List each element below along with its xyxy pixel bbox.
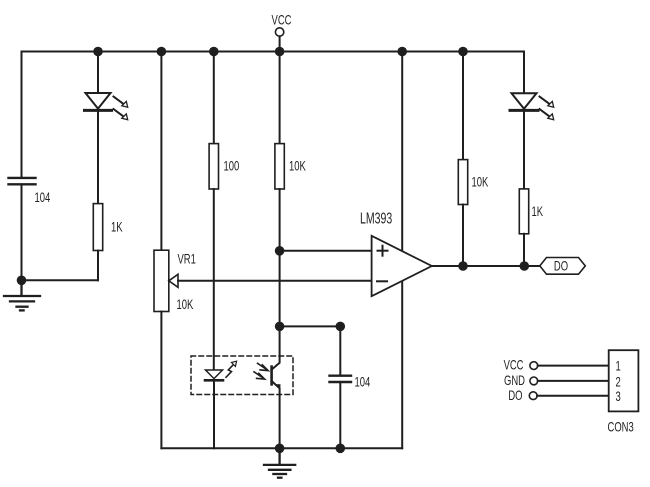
wire VR1 wiper to inverting input	[178, 280, 372, 282]
junction dot non-inverting node	[275, 246, 285, 256]
wire R100 to IR LED	[213, 189, 215, 370]
svg-text:DO: DO	[508, 388, 522, 403]
svg-text:10K: 10K	[177, 297, 194, 312]
wire VCC stem	[279, 36, 281, 51]
svg-text:VCC: VCC	[504, 358, 524, 373]
wire R100 top	[213, 52, 215, 144]
wire op-amp power from rail	[401, 52, 403, 449]
op-amp U1 LM393	[372, 236, 432, 296]
wire DO to CON3 pin3	[537, 395, 609, 397]
svg-text:LM393: LM393	[360, 209, 392, 227]
svg-text:DO: DO	[554, 259, 568, 274]
wire LED1 cathode to R1	[97, 110, 99, 203]
wire to non-inverting input	[280, 250, 372, 252]
junction dot ground rail x280	[275, 444, 285, 454]
port tag DO	[540, 258, 586, 275]
svg-text:CON3: CON3	[608, 420, 634, 435]
svg-text:VR1: VR1	[178, 252, 196, 267]
wire IR LED cathode to ground rail	[213, 380, 215, 448]
junction dot rail x402	[397, 47, 407, 57]
pin circle GND	[530, 377, 538, 385]
wire left column lower	[21, 185, 23, 280]
optocoupler dashed box	[191, 356, 293, 395]
junction dot rail x161	[157, 47, 167, 57]
svg-text:VCC: VCC	[272, 13, 292, 28]
node VCC terminal circle	[275, 28, 283, 36]
connector CON3 body	[609, 350, 639, 411]
wire VR1 top	[160, 52, 162, 251]
junction dot rail x463	[458, 47, 468, 57]
IR emitter LED	[205, 370, 223, 380]
wire left column upper	[21, 52, 23, 178]
svg-text:3: 3	[616, 389, 621, 404]
VR1 wiper arrow	[169, 274, 178, 287]
resistor 10K divider	[275, 144, 284, 189]
phototransistor Q1	[272, 326, 281, 448]
IR LED emission bolt arrow	[226, 361, 237, 377]
svg-text:104: 104	[35, 190, 51, 205]
wire pull-up 10K bottom	[462, 205, 464, 267]
resistor 1K right	[519, 189, 528, 234]
wire VCC top rail	[22, 51, 525, 53]
wire LED1 anode	[97, 52, 99, 94]
wire right column from rail	[523, 52, 525, 94]
wire VCC to CON3 pin1	[538, 365, 609, 367]
junction dot filter node	[275, 322, 285, 332]
capacitor 104 left	[9, 178, 36, 184]
svg-text:10K: 10K	[289, 159, 306, 174]
wire 1K right bottom	[523, 234, 525, 266]
wire LED2 cathode to 1K	[523, 110, 525, 188]
wire bottom ground rail	[161, 447, 402, 449]
capacitor 104 filter	[330, 326, 352, 448]
resistor 100	[209, 144, 218, 189]
junction dot output x463	[458, 261, 468, 271]
svg-text:2: 2	[616, 375, 621, 390]
pin circle VCC	[530, 362, 538, 370]
potentiometer VR1 body	[154, 250, 169, 311]
wire 10K bottom to node	[279, 189, 281, 251]
wire filter node to capacitor	[280, 325, 341, 327]
ground left	[4, 280, 40, 310]
resistor 10K pull-up	[458, 160, 467, 205]
junction dot rail x98	[93, 47, 103, 57]
junction dot ground rail x340	[336, 444, 346, 454]
wire GND to CON3 pin2	[538, 380, 609, 382]
wire R1 bottom	[97, 251, 99, 281]
wire 1K bottom to ground node	[22, 279, 99, 281]
wire VR1 bottom to ground rail	[160, 312, 162, 449]
junction dot rail x280	[275, 47, 285, 57]
svg-text:10K: 10K	[472, 175, 489, 190]
op-amp plus sign	[378, 246, 388, 256]
LED D2 emission arrows	[540, 97, 554, 120]
op-amp minus sign	[377, 280, 387, 282]
wire pull-up 10K top	[462, 52, 464, 160]
svg-text:1K: 1K	[532, 204, 544, 219]
svg-text:GND: GND	[504, 373, 525, 388]
junction dot output x524	[520, 261, 530, 271]
junction dot capacitor top	[336, 322, 346, 332]
junction dot rail x214	[209, 47, 219, 57]
junction dot left ground node	[17, 276, 27, 286]
svg-text:1: 1	[616, 359, 621, 374]
LED D2 output indicator	[510, 93, 538, 110]
wire 10K divider top	[279, 52, 281, 144]
resistor 1K left	[93, 204, 102, 251]
svg-text:104: 104	[355, 375, 371, 390]
LED D1 emission arrows	[114, 97, 128, 120]
ground bottom	[264, 448, 295, 477]
wire node down to phototransistor	[279, 251, 281, 327]
svg-text:1K: 1K	[111, 220, 123, 235]
LED D1 power indicator	[85, 93, 112, 110]
svg-text:100: 100	[224, 159, 240, 174]
phototransistor light arrows	[254, 363, 268, 379]
pin circle DO	[529, 392, 537, 400]
wire op-amp output	[432, 265, 540, 267]
